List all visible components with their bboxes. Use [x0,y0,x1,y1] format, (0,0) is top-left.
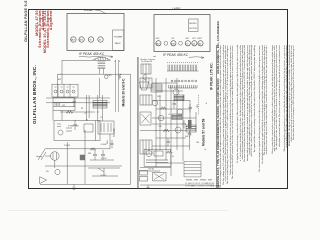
resistor R9 zigzag [90,148,96,150]
winding block W3 [186,125,196,132]
vertical red index text: model list [36,10,53,58]
svg-text:.05: .05 [168,114,170,116]
gang section lines [58,84,70,97]
svg-text:IF PEAK 175 KC.: IF PEAK 175 KC. [210,62,214,90]
terminal strip ticks [168,65,197,71]
capacitor C9 plates [189,104,193,112]
svg-text:110V AC: 110V AC [148,168,155,171]
svg-text:25M: 25M [196,142,200,144]
tube V1 6A7 socket circle [71,37,76,42]
tube V7 75 socket circle [185,41,190,46]
svg-text:57+58: 57+58 [112,128,116,137]
wire bus 2 [46,97,110,99]
svg-text:6A7: 6A7 [71,38,75,41]
winding block W2 [172,114,182,120]
winding block W1 [174,95,184,101]
tube layout box 1 (Models 30/9-C chassis) [67,14,124,51]
T2 windings [101,123,111,132]
chassis unit box [54,121,100,141]
wire ladder rungs [53,98,120,176]
unit inner rect [154,151,163,156]
tuning condenser gang box [52,84,78,97]
column divider rule 2 [215,45,217,189]
svg-text:6D6: 6D6 [79,39,84,41]
tone control box [153,172,166,181]
main wire risers [156,78,196,176]
tube V5a circle [152,100,158,106]
rail under tick row [169,87,198,89]
trimmer hole circle [179,41,183,45]
resistor R3 hatched block [80,155,85,161]
svg-text:400V: 400V [107,139,109,144]
speaker SP1 voice coil ribs [98,60,106,68]
svg-text:T1 IF TRANS T2 OUTPUT T3 POW: T1 IF TRANS T2 OUTPUT T3 POWER R4 1M [185,185,220,188]
gang trimmer dots [55,86,75,88]
speaker SP2 mini cone [143,74,146,81]
antenna lead-in diagonals [36,149,46,160]
V4 leads [45,156,55,168]
unit inner divider [95,121,97,141]
capacitor C5 plates [111,140,114,148]
tube V6 6D6 socket circle [171,41,176,46]
svg-text:MOTOR: MOTOR [189,28,197,30]
chassis ground symbol [72,184,76,189]
svg-text:250V: 250V [157,96,162,98]
svg-text:RECT: RECT [197,38,203,40]
svg-text:.02: .02 [204,149,206,151]
V4 internal electrodes [53,153,57,160]
chassis ground symbol 2 [147,185,150,189]
coil symbol row [186,179,212,180]
socket terminal circles row [171,80,173,82]
switch S1 [98,168,104,176]
capacitor C8 plates [167,138,171,146]
terminal strip rail [167,70,199,72]
svg-text:80: 80 [199,43,202,45]
speaker SP1 dome hatch [95,57,108,61]
svg-text:6D6: 6D6 [62,105,65,107]
svg-text:B+: B+ [206,102,208,104]
tube V4 42 socket circle [98,37,103,42]
tube V9 80 rectifier socket circle [198,41,203,46]
svg-text:LABEL: LABEL [172,7,182,11]
svg-text:ANT: ANT [58,78,61,81]
cone triangle symbol [40,177,47,184]
wire speaker elbow left [58,60,93,84]
capacitor C10 plates [188,131,191,137]
capacitor C1 plates [73,98,77,107]
dashed wire row above strip [167,61,198,63]
tube V5 circle [173,89,179,95]
faint scan streak below frame [8,210,228,211]
resistor R2 zigzag [66,111,73,114]
capacitor C6 plates [173,100,177,108]
leader line to LABEL [95,10,106,14]
svg-text:265V: 265V [108,75,113,77]
svg-text:POWER: POWER [114,37,123,39]
svg-text:76: 76 [89,39,92,41]
wire left drop [57,74,59,97]
svg-text:PACK: PACK [115,42,121,45]
antenna coil L2 box [140,78,152,88]
svg-text:OUT: OUT [192,38,197,40]
svg-text:LABEL: LABEL [84,8,94,12]
rectifier tube V8 circle [146,151,152,157]
svg-text:42: 42 [193,43,196,45]
dashed AVC wire [198,95,200,115]
power unit outline box [144,149,171,166]
capacitor C4 plates [101,150,105,160]
underline squiggle [79,56,113,58]
svg-text:IF PEAK 456 KC: IF PEAK 456 KC [163,53,189,57]
small tube V3 circle [55,169,60,174]
service data text block (rotated column) [217,45,288,188]
svg-text:.1MF: .1MF [158,126,162,128]
tube V2 6D6 socket circle [79,37,84,42]
gang condenser C5 box [140,112,151,125]
unit inner rect [84,124,93,132]
IF transformer T2 box [98,121,114,134]
svg-text:.05: .05 [84,113,86,115]
wire verticals lower [67,130,110,184]
tube V5 6A7 socket circle [156,41,161,46]
voltage divider table rules [184,161,201,177]
phono motor block in box 2 [189,19,199,32]
svg-text:POWER: POWER [64,145,71,147]
lower tick row [169,85,198,88]
svg-text:42: 42 [99,39,102,41]
output transformer T3 small assembly [141,64,151,74]
underline squiggle 2 [153,56,204,59]
cross wires [139,83,196,171]
wire bus 5 [45,148,110,150]
svg-text:76: 76 [100,117,102,119]
svg-text:POWER UNIT: POWER UNIT [68,126,79,128]
output choke box [151,84,162,92]
svg-text:RF: RF [172,38,175,40]
resistor R6 zigzag [166,151,172,154]
svg-text:IF PEAK 456 KC: IF PEAK 456 KC [79,52,105,56]
tube V8 42 socket circle [192,41,197,46]
IF transformer T4 box [140,140,152,154]
svg-text:PHONO: PHONO [189,23,197,25]
wire bus 4 [60,111,95,113]
tube V7 circle [175,127,181,133]
trimmer hole circle [164,41,168,45]
tube layout box 2 (Models 57/58 chassis) [154,15,210,52]
svg-text:75: 75 [186,43,189,45]
speaker SP1 dome [93,57,111,60]
wire bottom bus [40,183,131,185]
svg-text:SW: SW [46,171,49,173]
AC plug box 1 [140,171,148,176]
unit terminals [57,124,72,131]
svg-text:R7 250: R7 250 [101,158,107,160]
gang cell circles [54,90,57,93]
bottom bus wires [140,184,214,186]
wire riser right [189,136,191,150]
unit inner winding [146,160,168,163]
svg-text:Models 57 and 58: Models 57 and 58 [202,119,206,146]
svg-text:Models 30 and 9-C: Models 30 and 9-C [122,78,126,107]
vertical brand: GILFILLAN BROS., INC. [33,66,39,124]
svg-text:50M: 50M [185,136,189,138]
tube V6a circle [158,115,164,121]
wire bus 3 [46,102,110,104]
svg-text:6A7: 6A7 [156,42,161,45]
svg-text:C6 8MF: C6 8MF [101,144,107,146]
svg-text:for Model 30: for Model 30 [142,60,153,63]
resistor R10 hatched block [188,120,192,128]
resistor R1 zigzag [118,74,121,80]
svg-text:80: 80 [172,156,174,158]
vertical page label: GILFILLAN PAGE 9-5 [24,4,28,42]
capacitor C7 plates [183,120,187,128]
tube V3 76 socket circle [88,37,93,42]
resistor R8 zigzag [163,129,169,132]
svg-text:DET: DET [185,38,189,40]
wire B+ bus [58,73,131,75]
column divider rule 1 [136,57,138,189]
svg-text:OSC: OSC [156,38,161,40]
capacitor C3 plates [93,150,97,160]
power pack block in box 1 [113,30,124,50]
page border frame [28,9,288,190]
tube V0 top circle [105,75,109,79]
capacitor C2 plates [74,120,78,130]
speaker SP2 trapezoid [140,82,149,90]
AC plug box 2 [140,177,148,182]
RF coil L3 box [140,95,152,105]
rectifier tube V4 big circle [51,152,60,161]
tube V6 circle [177,109,183,115]
svg-text:8MF: 8MF [88,153,91,155]
resistor R5 zigzag [160,107,166,110]
wire right drop [130,74,132,184]
wire risers mid [87,95,103,121]
twin riser wires [115,60,120,112]
IF transformer T1 winding block [93,101,107,109]
pilot lamp circle in unit [58,130,63,135]
tube V1 wire [99,78,101,98]
comb marks [55,103,60,106]
wire bus 6 [45,165,122,167]
wire speaker to bus [100,69,104,75]
junction dots [82,108,98,120]
